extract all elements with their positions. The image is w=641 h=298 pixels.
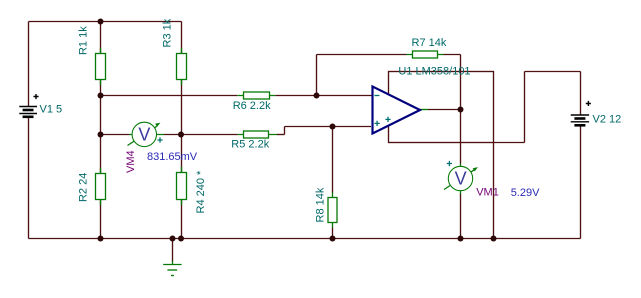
- wire R3-R4 column middle: [181, 80, 183, 172]
- op-amp U1 boundary box: [389, 72, 494, 143]
- wire bottom ground rail: [29, 238, 581, 240]
- wire left column bottom (V1 -): [28, 118, 30, 239]
- wire R1 column upper: [100, 22, 102, 54]
- svg-text:V: V: [455, 169, 467, 189]
- svg-text:5.29V: 5.29V: [511, 187, 540, 199]
- wire R7 right to output column: [444, 54, 461, 56]
- op-amp minus input mark: [374, 95, 379, 97]
- battery V2 plus mark: [586, 101, 591, 106]
- resistor R5: [238, 131, 277, 138]
- junction rail ground: [170, 236, 176, 242]
- wire R1-R2 column middle (node A to node B): [100, 80, 102, 173]
- battery V2: [571, 115, 589, 125]
- svg-text:V: V: [138, 124, 150, 144]
- wire R7 branch up from row A: [316, 55, 318, 96]
- voltmeter VM4: [128, 122, 165, 146]
- wire row B: VM4 to R5: [164, 134, 238, 136]
- junction rail op-amp supply: [491, 236, 497, 242]
- battery V1 plus mark: [34, 94, 39, 99]
- wire R7 left feed: [317, 54, 407, 56]
- wire R3 column upper: [181, 22, 183, 54]
- junction rail R2: [98, 236, 104, 242]
- wire op-amp supply down to ground rail: [493, 143, 495, 239]
- wire R2 column lower: [100, 200, 102, 239]
- wire row B: node B to VM4: [101, 134, 130, 136]
- resistor R7: [407, 51, 444, 58]
- junction op-amp output node: [458, 107, 464, 113]
- svg-text:R7 14k: R7 14k: [412, 37, 447, 49]
- svg-text:V2 12: V2 12: [593, 114, 622, 126]
- resistor R8: [328, 193, 337, 228]
- wire V2 positive feed top: [525, 71, 581, 73]
- ground: [163, 261, 181, 276]
- wire top rail: [29, 21, 182, 23]
- wire V2 feed to op-amp supply corner: [494, 142, 525, 144]
- wire op-amp output to node: [428, 109, 461, 111]
- wire V2 column top: [580, 72, 582, 115]
- wire left column top (V1 +): [28, 22, 30, 107]
- junction rail R8: [330, 236, 336, 242]
- resistor R4: [177, 167, 187, 205]
- wire step up to non-inverting row: [284, 127, 286, 135]
- resistor R2: [96, 168, 106, 205]
- svg-text:R4 240 *: R4 240 *: [195, 170, 207, 214]
- svg-text:U1 LM358/101: U1 LM358/101: [398, 66, 470, 78]
- wire R8 bottom to ground rail: [332, 228, 334, 239]
- wire row A: node A to R6: [101, 95, 238, 97]
- battery V1: [19, 107, 37, 117]
- svg-text:VM1: VM1: [476, 186, 499, 198]
- svg-text:831.65mV: 831.65mV: [147, 151, 198, 163]
- junction rail R4: [178, 236, 184, 242]
- op-amp plus supply mark: [385, 117, 390, 122]
- junction R6/R7 at inverting input: [314, 93, 320, 99]
- wire output node down to VM1: [460, 110, 462, 164]
- resistor R1: [96, 48, 106, 85]
- svg-text:R2 24: R2 24: [77, 173, 89, 202]
- svg-text:R3 1k: R3 1k: [162, 18, 174, 47]
- junction node A (R1/R2/R6): [98, 93, 104, 99]
- wire row A: R6 to op-amp inverting input: [275, 95, 373, 97]
- op-amp U1 triangle: [373, 87, 429, 134]
- junction rail VM1: [458, 236, 464, 242]
- junction node C (R3/R4/VM4 right): [178, 132, 184, 138]
- junction node B (VM4 left): [98, 132, 104, 138]
- wire R4 column lower: [181, 200, 183, 239]
- wire ground stem: [172, 239, 174, 262]
- voltmeter VM1: [444, 161, 478, 194]
- wire to op-amp non-inverting input: [285, 126, 372, 128]
- wire V2 feed column: [524, 72, 526, 143]
- op-amp plus input mark: [375, 121, 380, 126]
- svg-text:R6 2.2k: R6 2.2k: [233, 100, 271, 112]
- junction top rail / R1: [98, 19, 104, 25]
- wire R8 branch down: [332, 127, 334, 193]
- wire row B: R5 to step: [277, 134, 285, 136]
- resistor R3: [177, 48, 187, 85]
- resistor R6: [237, 92, 275, 99]
- svg-text:R8 14k: R8 14k: [315, 187, 327, 222]
- svg-text:V1 5: V1 5: [40, 104, 63, 116]
- svg-text:R5 2.2k: R5 2.2k: [231, 139, 269, 151]
- wire VM1 bottom to ground rail: [460, 194, 462, 239]
- wire V2 column bottom: [580, 126, 582, 239]
- svg-text:R1 1k: R1 1k: [77, 26, 89, 55]
- junction R5/R8 at non-inverting input: [330, 124, 336, 130]
- wire feedback column down to output node: [460, 55, 462, 110]
- svg-text:VM4: VM4: [125, 150, 137, 173]
